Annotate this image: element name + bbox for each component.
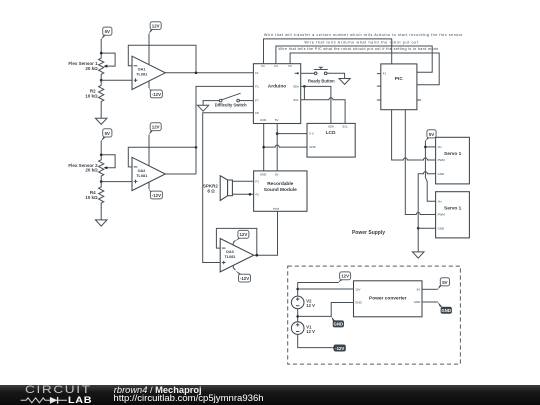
wire 5V to LCD: [277, 133, 307, 135]
svg-text:OA1: OA1: [138, 68, 146, 72]
footer text rbrown4 / Mechaproj: [114, 386, 202, 395]
Servo 1 block (upper): [436, 137, 470, 184]
svg-text:GND: GND: [438, 172, 444, 176]
svg-text:PIC: PIC: [395, 76, 404, 82]
svg-text:F1: F1: [255, 71, 259, 75]
flex sensor 2 (20 k ohm): [68, 155, 115, 182]
svg-text:Wire that tells Arduino what h: Wire that tells Arduino what hand the ro…: [304, 40, 418, 44]
wire node to converter 12V pin: [298, 288, 354, 290]
wire1 Arduino F3 to PIC top: [264, 39, 392, 64]
svg-text:Servo 1: Servo 1: [444, 206, 462, 212]
svg-text:5V: 5V: [105, 131, 110, 136]
net flag -12V (OA2 V-): [149, 182, 163, 199]
node flex1 top: [100, 52, 103, 55]
svg-text:Wire that will transfer a cert: Wire that will transfer a certain number…: [264, 33, 463, 37]
node flex2 top: [100, 154, 103, 157]
net flag 5V (servos): [425, 130, 436, 142]
svg-text:TL081: TL081: [136, 174, 147, 178]
net flag GND (converter): [438, 302, 452, 314]
wire to servo1 Vin: [425, 146, 435, 148]
Power converter block: [354, 281, 423, 317]
svg-text:12 V: 12 V: [306, 303, 315, 308]
wire servo1 GND to gnd rail: [418, 172, 435, 229]
net flag -12V (OA1 V-): [149, 81, 163, 98]
LCD block: [307, 123, 355, 157]
svg-text:20 kΩ: 20 kΩ: [85, 66, 98, 71]
speaker SPKR2 8 ohm: [203, 176, 233, 201]
node servo1 vin: [424, 146, 427, 149]
svg-text:GND: GND: [309, 145, 315, 149]
op-amp OA2 TL081 feedback wire: [128, 147, 196, 174]
svg-text:Difficulty Switch: Difficulty Switch: [215, 103, 247, 108]
svg-text:TL081: TL081: [136, 73, 147, 77]
svg-text:Input: Input: [273, 206, 280, 210]
svg-text:GND: GND: [260, 118, 266, 122]
svg-text:5V: 5V: [417, 287, 421, 291]
svg-text:12V: 12V: [341, 274, 349, 279]
svg-text:5V: 5V: [442, 280, 447, 285]
Recordable Sound Module block: [254, 171, 307, 211]
wire converter GND out: [422, 301, 438, 303]
svg-text:SDA: SDA: [293, 85, 299, 89]
wire Arduino SDA to LCD: [301, 86, 331, 123]
svg-text:5V: 5V: [429, 132, 434, 137]
wire2 Arduino F4 to PIC right: [276, 46, 432, 72]
svg-text:F3: F3: [261, 64, 265, 68]
svg-text:10 kΩ: 10 kΩ: [85, 93, 98, 98]
wire to servo2 GND: [418, 227, 435, 229]
svg-text:-12V: -12V: [152, 193, 161, 198]
wire SDA branch down: [303, 86, 305, 99]
wire PIC to servo 2 PWM (hop over gnd): [405, 110, 435, 215]
svg-text:Ready Button: Ready Button: [308, 78, 335, 83]
wire OA1 output to Arduino pin F1: [165, 72, 253, 74]
net flag -12V (power): [332, 345, 346, 352]
svg-text:Servo 1: Servo 1: [444, 151, 462, 157]
svg-text:OA2: OA2: [138, 169, 146, 173]
svg-text:12V: 12V: [239, 232, 247, 237]
switch SW1 Difficulty Switch: [215, 93, 247, 107]
wire node to converter GND: [298, 303, 354, 317]
ground (servos): [412, 252, 424, 258]
net flag 5V (channel 2): [101, 129, 112, 142]
svg-text:-12V: -12V: [240, 276, 249, 281]
svg-text:-12V: -12V: [152, 92, 161, 97]
svg-text:Power converter: Power converter: [369, 295, 407, 301]
op-amp OA3 TL081 feedback wire: [216, 228, 256, 255]
wire 5V flag to servo vin rail: [425, 141, 435, 202]
svg-text:5V: 5V: [275, 172, 279, 176]
wire V2- to V1+: [297, 309, 299, 322]
svg-text:GND: GND: [334, 322, 344, 327]
resistor R2 10 k ohm: [85, 80, 104, 118]
svg-text:OA3: OA3: [226, 250, 234, 254]
net flag 5V (channel 1): [101, 27, 112, 40]
svg-text:20 kΩ: 20 kΩ: [85, 168, 98, 173]
net flag 12V (power): [338, 272, 351, 283]
svg-text:SCL: SCL: [293, 98, 299, 102]
net flag 12V (OA3 V+): [233, 230, 249, 245]
wire Arduino GND down to sound module: [263, 124, 265, 171]
flex sensor 1 (20 k ohm): [68, 53, 115, 80]
net flag 12V (OA1 V+): [149, 22, 162, 65]
svg-text:F2: F2: [255, 85, 259, 89]
wire ready button to ground: [327, 73, 345, 78]
wire GND to LCD (hop over 5V): [264, 145, 307, 147]
node 5V: [276, 132, 279, 135]
node OA1 output: [195, 72, 198, 75]
svg-text:5V: 5V: [105, 29, 110, 34]
op-amp OA2 TL081: [132, 157, 165, 190]
ground (channel 1): [95, 118, 107, 124]
node between V2 and V1: [296, 315, 299, 318]
wire 5V to flex sensor 2: [100, 141, 102, 155]
wire flex2 node to OA2 + input: [101, 181, 132, 183]
net flag 12V (OA2 V+): [149, 123, 162, 166]
svg-text:12V: 12V: [152, 24, 160, 29]
op-amp OA1 TL081: [132, 56, 165, 89]
PIC block: [377, 64, 421, 110]
node flex2 wiper: [100, 180, 103, 183]
net flag 5V (converter): [438, 278, 450, 290]
wire speaker terminal 1: [232, 180, 253, 182]
svg-text:TL081: TL081: [225, 255, 236, 259]
wire V1- to -12V flag: [298, 334, 332, 347]
node GND: [262, 146, 265, 149]
voltage source V1 12 V: [291, 322, 315, 335]
svg-text:-12V: -12V: [335, 346, 344, 351]
svg-text:PWM: PWM: [438, 158, 446, 162]
Servo 1 block (lower): [436, 192, 470, 238]
node OA2 feedback / pin F2 wire: [195, 146, 198, 149]
wire OA3 output to sound module input: [254, 211, 278, 255]
net flag GND (power mid): [331, 317, 344, 328]
wire gnd rail down: [417, 228, 419, 252]
Arduino block: [253, 64, 300, 124]
CircuitLab logo resistor-diode glyph and LAB: [0, 385, 100, 405]
svg-text:GND: GND: [355, 301, 361, 305]
ground (channel 2): [95, 220, 107, 226]
wire PIC to servo 1 PWM (hops): [392, 110, 436, 160]
svg-text:GND: GND: [414, 300, 420, 304]
svg-text:SCL: SCL: [342, 125, 348, 129]
ground (ready button): [339, 79, 350, 85]
resistor R4 10 k ohm: [85, 182, 104, 220]
svg-text:12V: 12V: [355, 287, 360, 291]
svg-text:P1: P1: [255, 179, 259, 183]
node servo2 gnd: [417, 227, 420, 230]
svg-text:5 V: 5 V: [309, 132, 313, 136]
wire Arduino F8 to OA3 + input: [203, 113, 254, 263]
wire difficulty switch to Arduino F7: [240, 100, 254, 102]
svg-text:12V: 12V: [152, 125, 160, 130]
svg-text:GND: GND: [438, 226, 444, 230]
svg-text:LCD: LCD: [326, 130, 336, 136]
wire 5V to flex sensor 1: [100, 39, 102, 53]
svg-text:F5: F5: [288, 64, 292, 68]
wire speaker terminal 2: [232, 193, 253, 195]
svg-text:Power Supply: Power Supply: [352, 230, 385, 236]
node OA3 output: [255, 254, 258, 257]
svg-text:F4: F4: [274, 64, 278, 68]
wire converter 5V out: [422, 288, 438, 290]
svg-text:5V: 5V: [275, 118, 279, 122]
svg-text:Recordable: Recordable: [267, 181, 293, 187]
switch SW2 Ready Button: [308, 67, 335, 83]
wire flex1 node to OA1 + input: [101, 79, 132, 81]
svg-text:P2: P2: [255, 192, 259, 196]
wire OA2 output: [165, 173, 196, 175]
node flex1 wiper: [100, 79, 103, 82]
svg-text:Vin: Vin: [438, 199, 443, 203]
svg-text:Vin: Vin: [438, 145, 443, 149]
op-amp OA3 TL081: [220, 239, 254, 272]
footer bar: [0, 385, 540, 405]
svg-text:8 Ω: 8 Ω: [207, 188, 215, 193]
wire Arduino to ready button: [301, 72, 315, 74]
svg-text:Arduino: Arduino: [268, 84, 286, 90]
svg-text:F7: F7: [255, 99, 259, 103]
svg-text:SDA: SDA: [328, 125, 334, 129]
svg-text:10 kΩ: 10 kΩ: [85, 195, 98, 200]
svg-text:PWM: PWM: [438, 213, 446, 217]
CircuitLab logo wordmark CIRCUIT: [25, 385, 92, 396]
svg-text:Sound Module: Sound Module: [264, 187, 297, 193]
voltage source V2 12 V: [291, 296, 315, 309]
svg-text:12 V: 12 V: [306, 329, 315, 334]
op-amp OA1 TL081 feedback wire: [128, 45, 196, 73]
svg-text:GND: GND: [260, 172, 266, 176]
dashed power supply box: [288, 266, 461, 364]
wire V2+ up and to converter 12V: [298, 283, 339, 297]
node SDA: [303, 85, 306, 88]
wire Arduino SCL to LCD (hop over SDA): [301, 98, 345, 124]
net flag -12V (OA3 V-): [233, 265, 250, 282]
footer url: [113, 394, 263, 403]
wire Arduino 5V down to sound module: [276, 124, 278, 171]
wire Arduino F2 to OA2 feedback: [196, 86, 253, 147]
node speaker terminal 2: [249, 193, 252, 196]
svg-text:F8: F8: [255, 111, 259, 115]
wire difficulty switch to ground: [203, 101, 219, 106]
ground (difficulty switch): [198, 105, 209, 111]
node V2+: [296, 288, 299, 291]
svg-text:F1: F1: [383, 72, 387, 76]
wire3 Arduino F5 to PIC right: [290, 53, 439, 85]
svg-text:GND: GND: [441, 308, 451, 313]
svg-text:Wire that tells the PIC what t: Wire that tells the PIC what the robot s…: [278, 47, 438, 51]
